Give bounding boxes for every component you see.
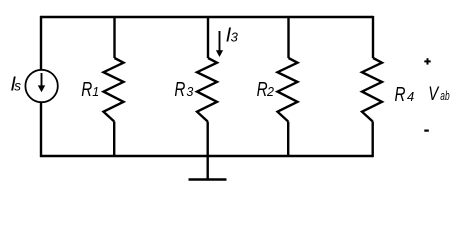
node + polarity mark <box>424 58 430 64</box>
label R2 <box>257 79 274 101</box>
wire left branch above source <box>40 16 42 69</box>
wire R2 top lead <box>287 17 289 58</box>
svg-text:R: R <box>257 79 268 101</box>
current source U Is <box>25 70 57 102</box>
svg-text:R: R <box>395 84 406 106</box>
label Vab <box>428 84 449 105</box>
resistor R1 <box>104 58 124 122</box>
wire R3 top lead <box>207 17 209 58</box>
svg-text:V: V <box>428 84 440 105</box>
label R1 <box>81 79 99 101</box>
svg-text:R: R <box>174 79 185 101</box>
svg-text:R: R <box>81 79 92 101</box>
label I3 <box>226 24 239 46</box>
wire top rail <box>41 16 374 18</box>
wire bottom rail <box>41 155 374 157</box>
node - polarity mark <box>424 130 429 132</box>
current arrow I3 <box>216 31 223 57</box>
svg-text:2: 2 <box>266 85 274 99</box>
wire R1 top lead <box>113 17 115 58</box>
svg-text:3: 3 <box>231 29 239 44</box>
ground <box>189 178 227 181</box>
resistor R3 <box>197 58 217 122</box>
wire left branch below source <box>40 103 42 157</box>
wire R3 bottom lead to ground <box>206 122 208 180</box>
label R4 <box>395 84 415 106</box>
label R3 <box>174 79 193 101</box>
label IS <box>10 73 21 95</box>
resistor R4 <box>362 58 382 122</box>
svg-text:ab: ab <box>440 89 449 103</box>
svg-text:1: 1 <box>92 85 99 99</box>
wire R1 bottom lead <box>113 122 115 157</box>
svg-text:4: 4 <box>407 89 414 104</box>
wire R4 top lead <box>372 16 374 58</box>
svg-text:s: s <box>14 78 21 93</box>
wire R4 bottom lead <box>372 122 374 158</box>
wire R2 bottom lead <box>287 122 289 157</box>
resistor R2 <box>278 58 298 122</box>
svg-text:3: 3 <box>186 85 193 99</box>
